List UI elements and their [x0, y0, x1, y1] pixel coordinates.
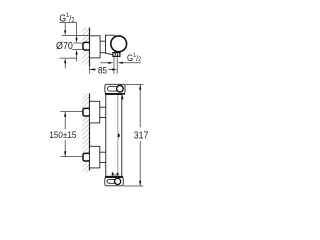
pipe stub (upper) [100, 40, 105, 42]
317 dimension line + arrows [139, 84, 141, 127]
svg-text:150±15: 150±15 [49, 130, 76, 141]
outlet dia left arrow [100, 62, 108, 64]
pipe stubs top (lower) [100, 106, 106, 108]
outlet extension lines for 85 dim [113, 57, 115, 74]
top end cap (lower view) [105, 84, 125, 93]
150±15 extension lines [60, 111, 82, 113]
wall hatch (upper) [82, 28, 89, 66]
bottom cap stadium detail [107, 179, 117, 183]
small arrow under top cap [121, 95, 124, 99]
pipe stubs bottom (lower) [100, 151, 106, 153]
Ø70 dimension top extension line [62, 34, 89, 36]
svg-text:317: 317 [134, 130, 149, 142]
Ø70 bottom arrow [64, 63, 66, 68]
G1/2 underline leader [60, 22, 77, 24]
Ø70 bottom extension line [60, 57, 77, 59]
bottom cap circle detail [115, 178, 121, 184]
G1/2 arrow up to fitting bottom [76, 55, 78, 61]
cap stadium detail [108, 86, 119, 91]
bar inner line short (lower left) [112, 172, 114, 177]
G1/2 fitting top extension line [74, 42, 83, 44]
wall extension line for 85 dim [89, 67, 91, 74]
85 dimension line right segment + arrow [108, 69, 113, 71]
svg-text:Ø70: Ø70 [56, 41, 73, 52]
supply fitting square G1/2 (upper) [83, 42, 90, 50]
handle pointer mark (mid bar) [118, 134, 120, 138]
knob circle [111, 36, 127, 52]
85 dimension line left segment + arrow [90, 69, 96, 71]
escutcheon bottom (lower) [90, 146, 100, 168]
cap bold base edge [105, 93, 125, 94]
escutcheon top (lower) [90, 101, 100, 123]
G1/2 fitting bottom extension line [72, 49, 83, 51]
cap circle detail [117, 85, 124, 92]
wall face line (upper) [89, 28, 91, 67]
valve body [106, 35, 115, 54]
G1/2 right leader line + arrow to outlet [122, 62, 141, 64]
supply fitting square top (lower) [83, 108, 90, 116]
escutcheon (upper) [90, 36, 101, 58]
317 extension lines [125, 83, 143, 85]
mixer bar (lower) [106, 95, 122, 177]
bar inner line (outlet axis) [117, 95, 119, 176]
Ø70 top arrow [64, 23, 66, 30]
bottom end cap [105, 178, 124, 186]
svg-text:85: 85 [98, 65, 107, 76]
wall face line (lower) [89, 93, 91, 170]
tiny arrows above bottom cap [111, 174, 119, 176]
bottom end cap bold top edge [105, 176, 124, 177]
150±15 dimension line + arrows [64, 112, 66, 130]
wall hatch (lower) [82, 93, 89, 172]
supply fitting square bottom (lower) [83, 153, 90, 161]
outlet nipple [113, 53, 120, 57]
G1/2 leader arrow down to fitting top [76, 23, 78, 38]
